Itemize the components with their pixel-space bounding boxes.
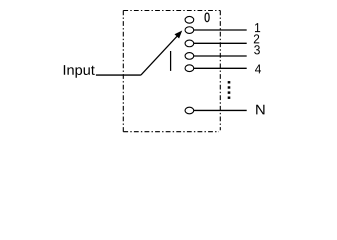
wire contact 3 (194, 55, 247, 57)
pivot bar (170, 51, 172, 71)
contact 3 circle (185, 53, 194, 60)
label 3 (254, 45, 260, 54)
ellipsis dot 3 (228, 91, 231, 93)
label 0 (205, 13, 210, 22)
wire input horizontal (96, 74, 141, 76)
label 1 (255, 23, 260, 32)
contact 4 circle (185, 65, 194, 72)
ellipsis dot 4 (228, 97, 231, 99)
arrowhead of switch arm (175, 31, 183, 39)
contact 1 circle (185, 27, 194, 34)
label Input (64, 65, 95, 78)
contact 2 circle (185, 40, 194, 47)
wire contact 2 (194, 42, 247, 44)
dash-dot box right border (219, 11, 221, 131)
label 4 (255, 64, 261, 73)
dash-dot box top border (123, 10, 220, 12)
dash-dot box bottom border (123, 131, 219, 133)
label 2 (254, 34, 259, 43)
wire contact 1 (194, 29, 247, 31)
ellipsis dot 2 (228, 86, 231, 88)
contact N circle (185, 107, 194, 114)
wire contact N (194, 109, 247, 111)
wire contact 4 (194, 67, 247, 69)
label N (256, 105, 264, 115)
dash-dot box left border (122, 11, 124, 132)
contact 0 circle (185, 16, 194, 23)
ellipsis dot 1 (228, 81, 231, 83)
wire switch arm diagonal (141, 35, 178, 75)
